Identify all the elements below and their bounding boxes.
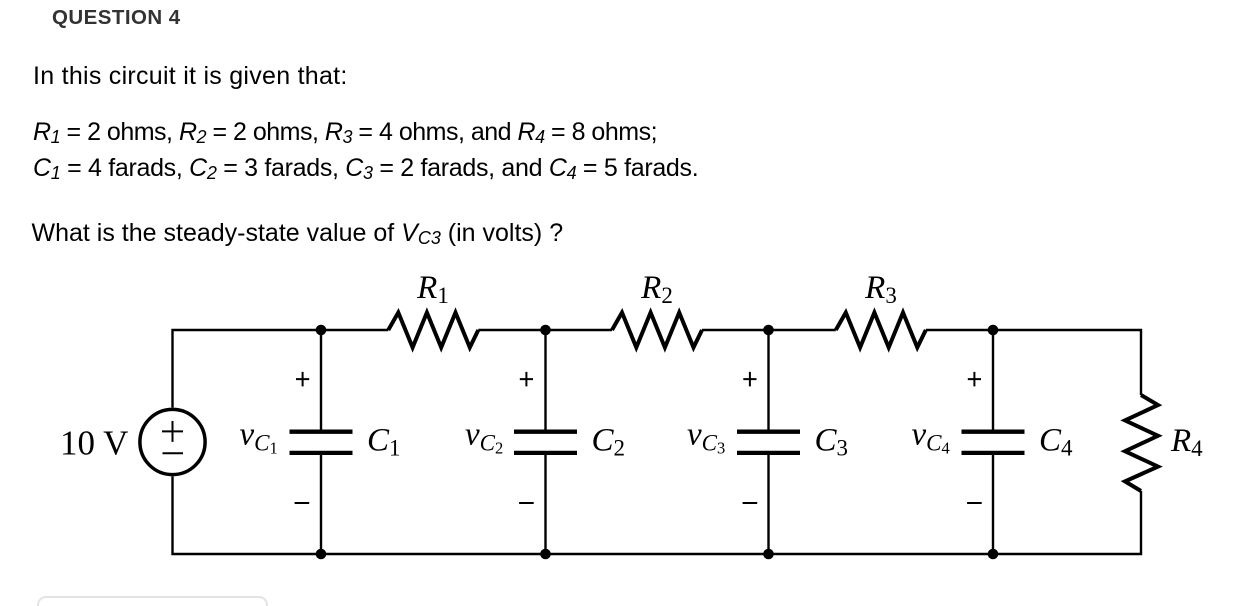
svg-text:C1: C1 <box>367 423 401 461</box>
svg-text:R3: R3 <box>864 270 897 308</box>
svg-text:C4: C4 <box>1039 423 1073 461</box>
svg-text:vC2: vC2 <box>465 417 503 458</box>
svg-text:vC4: vC4 <box>912 417 950 458</box>
svg-text:R1: R1 <box>416 270 449 308</box>
svg-text:C3: C3 <box>815 423 849 461</box>
svg-text:R4: R4 <box>1170 423 1203 461</box>
svg-text:10 V: 10 V <box>60 424 128 463</box>
svg-text:vC3: vC3 <box>687 417 725 458</box>
svg-text:C2: C2 <box>592 423 626 461</box>
svg-text:vC1: vC1 <box>240 417 278 458</box>
svg-text:R2: R2 <box>640 270 673 308</box>
